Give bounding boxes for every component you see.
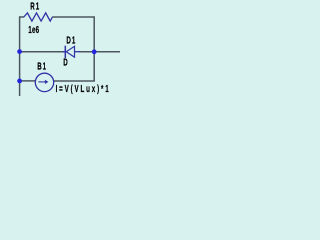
svg-text:I=V(VLux)*1: I=V(VLux)*1 [56,82,111,94]
diode D1 triangle [66,46,74,57]
svg-text:B1: B1 [37,60,47,72]
wire: top horizontal right segment [52,16,94,18]
junction dot node right-middle [92,49,97,54]
wire: middle horizontal (diode net) left part [20,51,64,53]
svg-text:D1: D1 [66,34,76,46]
wire: left vertical rail [19,16,21,96]
junction dot node left-bottom [17,79,22,84]
diode D1 anode lead [75,51,81,53]
svg-text:D: D [63,56,68,68]
svg-text:R1: R1 [30,0,40,12]
diode D1 cathode bar [64,46,66,58]
wire: bottom horizontal from B1 to right rail [53,80,95,82]
current source B1 arrow shaft [38,81,45,83]
diode D1 cathode lead [63,51,65,53]
resistor R1 [24,13,53,21]
junction dot node left-middle [17,49,22,54]
wire: top horizontal left segment (node top) [20,16,25,18]
background [0,0,120,96]
current source B1 arrow head [45,80,49,84]
svg-text:1e6: 1e6 [28,23,39,35]
wire: B1 left branch [20,80,36,82]
current source B1 circle [35,73,53,91]
wire: right vertical rail [93,16,95,81]
wire: middle horizontal (diode net) right part to edge [80,51,121,53]
